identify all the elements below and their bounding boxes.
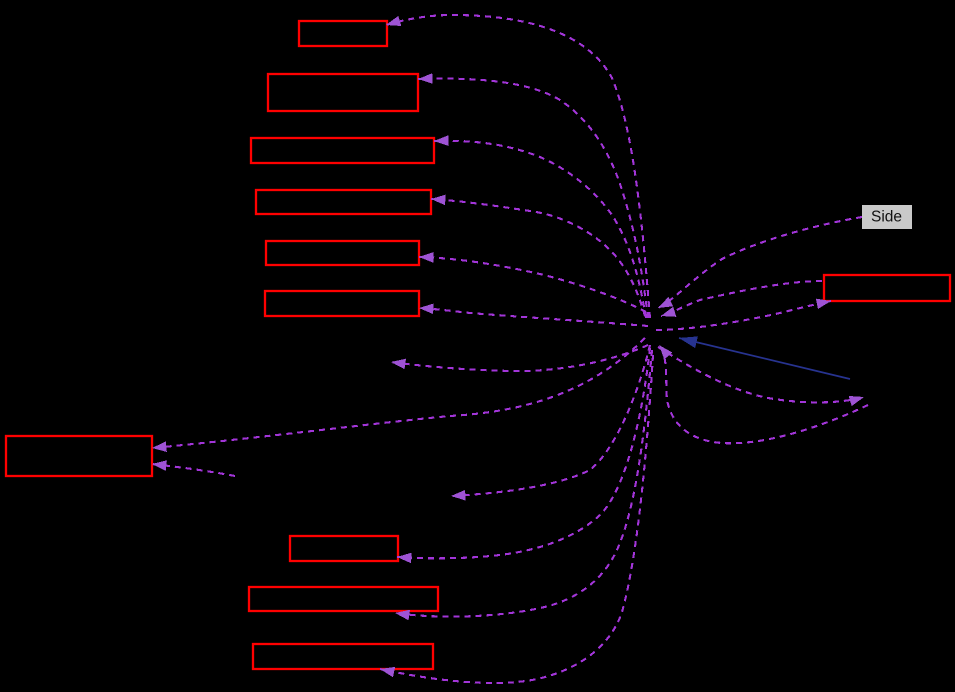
node box RB (right) <box>824 275 950 301</box>
edge invisible node D to LB lower <box>152 464 235 476</box>
edge center to BB3 <box>380 355 653 683</box>
node box BB3 <box>253 644 433 669</box>
edge blue inheritance <box>679 338 850 379</box>
node box B4 <box>256 190 431 214</box>
edge invisible node C to center <box>659 345 868 443</box>
node Side (grey label) <box>862 205 912 229</box>
edge center to LB upper <box>152 338 645 448</box>
node box B6 <box>265 291 419 316</box>
node box B3 <box>251 138 434 163</box>
edges <box>152 15 868 683</box>
edge center to BB1 <box>397 348 650 558</box>
node box B1 (top) <box>299 21 387 46</box>
edge center to B4 <box>431 199 645 316</box>
edge center to invisible node A <box>391 345 648 371</box>
edge RB to center <box>661 281 822 316</box>
edge center to B2 <box>418 79 648 318</box>
edge center to invisible node C <box>658 347 864 402</box>
edge Side to center <box>658 217 862 308</box>
edge center to BB2 <box>395 350 652 617</box>
edge center to B6 <box>419 308 648 326</box>
edge center to B3 <box>434 141 646 318</box>
node box B2 <box>268 74 418 111</box>
node box LB (left) <box>6 436 152 476</box>
edge center to RB <box>656 301 831 330</box>
edge center to B1 <box>386 15 650 318</box>
svg-text:Side: Side <box>871 209 902 226</box>
edge center to B5 <box>419 257 646 312</box>
node box B5 <box>266 241 419 265</box>
node box BB2 <box>249 587 438 611</box>
node box BB1 (bottom) <box>290 536 398 561</box>
edge center to invisible node B <box>451 345 650 496</box>
